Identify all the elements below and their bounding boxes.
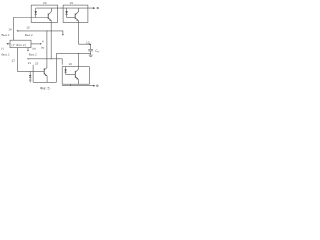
svg-text:12: 12 — [86, 40, 90, 44]
svg-text:Фиг. 5: Фиг. 5 — [40, 87, 50, 91]
ground under capacitor — [89, 53, 93, 56]
arrowhead wire 15 down stub — [62, 34, 64, 35]
junction dot wire 15 x emitter Q1 — [50, 29, 53, 32]
pin 4 arrow right of block U — [31, 43, 41, 45]
wire bottom output — [62, 85, 94, 87]
svg-text:19: 19 — [70, 1, 74, 5]
wire base of Q4 — [66, 73, 76, 75]
wire 17 from block U to base of Q3 — [17, 48, 44, 72]
diode D4 in block 24 — [64, 67, 66, 75]
diode D2 in block 19 — [65, 8, 68, 17]
terminal circle bottom right — [97, 85, 99, 87]
arrowhead bottom output — [93, 85, 95, 87]
wire 16 from capacitor bottom to node 21 — [57, 53, 91, 58]
svg-text:Вых.2: Вых.2 — [25, 33, 33, 37]
capacitor Cn — [88, 44, 93, 53]
wire collector of Q3 up to wire 15 — [46, 31, 48, 68]
junction dot wire 16 x pin of block 24 — [77, 52, 80, 55]
svg-text:4: 4 — [42, 40, 44, 44]
arrowhead wire 21 left end — [27, 58, 28, 60]
wire base of block 19 — [67, 17, 76, 19]
svg-text:(н): (н) — [41, 45, 45, 49]
transistor Q1 in block 20 — [48, 8, 51, 21]
junction dot node 21 — [51, 58, 52, 59]
block 23 box (bottom-left) — [32, 65, 34, 83]
wire 21 node line — [29, 59, 62, 65]
svg-text:(У Фиг.2): (У Фиг.2) — [11, 43, 26, 47]
ground under diode D3 — [29, 80, 32, 82]
terminal circle top right — [97, 7, 99, 9]
block 19 box (top-right current mirror) — [63, 5, 88, 22]
pin Вых.2 stub below block U — [27, 48, 29, 51]
wire top rail — [36, 7, 94, 9]
diode D1 in block 20 — [34, 8, 37, 17]
arrowhead wire 15 left end — [17, 30, 19, 32]
output arrowhead top right — [93, 7, 95, 9]
block U (from Fig.2) box — [10, 40, 31, 47]
wire base of block 20 to node 14 — [13, 18, 48, 41]
svg-text:Cн: Cн — [95, 49, 99, 54]
wire emitter of Q1 down to node 21 — [50, 21, 52, 59]
diode D3 to ground on base of Q3 — [29, 71, 31, 80]
svg-text:24: 24 — [69, 62, 73, 66]
transistor Q2 in block 19 — [75, 8, 78, 21]
transistor Q4 in block 24 — [75, 69, 78, 84]
svg-text:20: 20 — [43, 1, 47, 5]
block 24 box (bottom-right) — [62, 67, 89, 85]
tick from block 24 bottom to output wire — [69, 84, 71, 86]
svg-text:Вых.1: Вых.1 — [2, 33, 10, 37]
svg-text:15: 15 — [26, 25, 30, 29]
pin collector of block 24 up to wire 16 — [78, 53, 80, 69]
wire emitter of Q2 down — [79, 21, 90, 44]
svg-text:23: 23 — [35, 62, 39, 66]
junction dot wire 15 x collector Q3 — [45, 29, 48, 32]
svg-text:14: 14 — [8, 27, 12, 31]
svg-text:17: 17 — [12, 59, 16, 63]
svg-text:21: 21 — [28, 61, 32, 65]
svg-text:(-): (-) — [1, 47, 4, 51]
svg-text:Вых.1: Вых.1 — [2, 52, 10, 56]
wire 15 horizontal — [17, 31, 63, 35]
pin Вых.1 arrow left of block U — [7, 43, 10, 45]
svg-text:Вых.2: Вых.2 — [29, 52, 37, 56]
arrowhead wire 12 — [89, 43, 91, 45]
svg-text:(н): (н) — [33, 46, 37, 50]
transistor Q3 in block 23 — [44, 68, 47, 83]
block 20 box (top-left current mirror) — [31, 5, 57, 22]
